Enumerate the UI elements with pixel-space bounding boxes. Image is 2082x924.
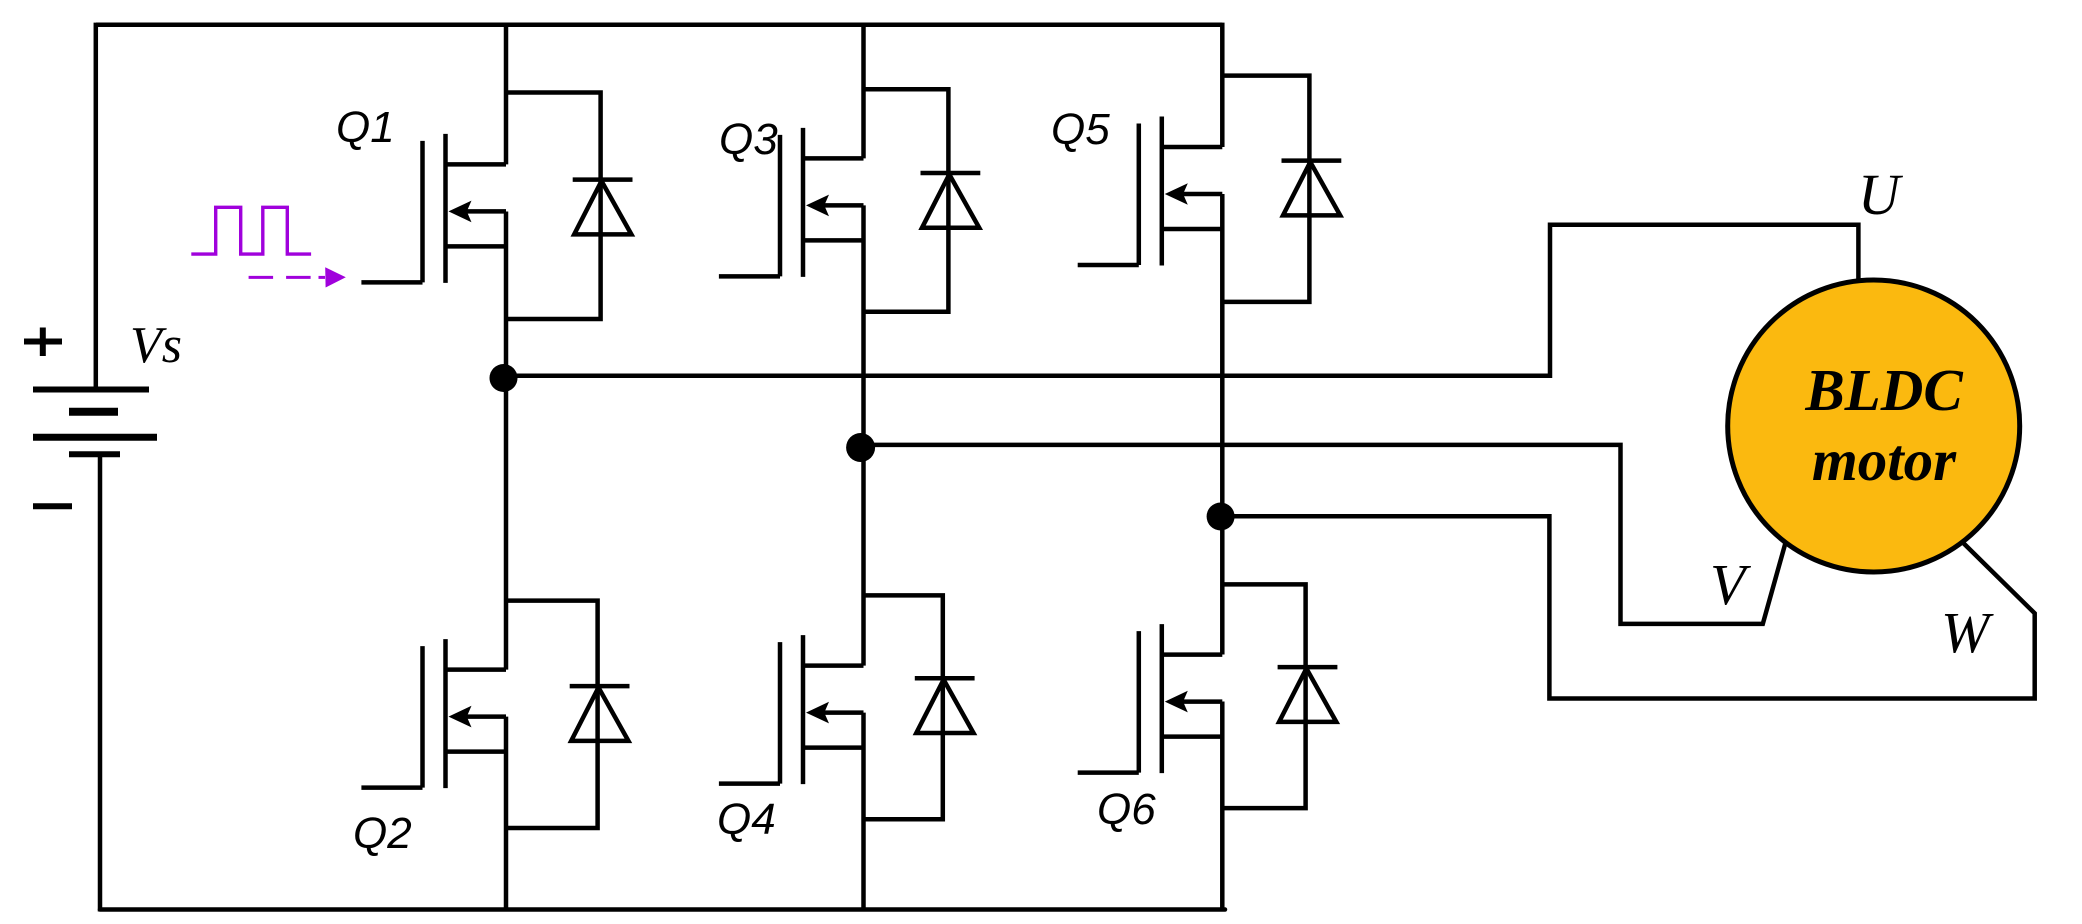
- wire phase W to motor: [1221, 516, 2035, 698]
- PWM dashed arrow into Q1 gate: [249, 267, 346, 287]
- wire Q6 diode frame: [1222, 584, 1305, 808]
- wire leg 2 vertical segments: [861, 23, 866, 910]
- wire phase V to motor: [861, 445, 1786, 624]
- node U junction dot: [490, 364, 518, 392]
- transistor Q3: [719, 128, 864, 277]
- wire Q3 diode frame: [864, 89, 949, 312]
- svg-text:motor: motor: [1812, 427, 1957, 493]
- svg-text:Q5: Q5: [1051, 105, 1110, 154]
- node V junction dot: [846, 433, 875, 462]
- battery Vs: [33, 390, 157, 455]
- wire leg 3 vertical segments: [1220, 23, 1225, 910]
- diode D1: [573, 180, 633, 235]
- wire Q5 diode frame: [1222, 76, 1309, 302]
- svg-text:BLDC: BLDC: [1804, 357, 1963, 423]
- svg-text:Vs: Vs: [130, 317, 182, 374]
- transistor Q4: [719, 635, 864, 784]
- diode D4: [915, 678, 975, 733]
- svg-text:W: W: [1941, 600, 1994, 665]
- diode D5: [1282, 161, 1342, 216]
- svg-text:Q4: Q4: [717, 795, 776, 844]
- BLDC motor: [1728, 280, 2020, 572]
- svg-text:Q2: Q2: [353, 809, 412, 858]
- wire battery negative lead: [98, 454, 103, 911]
- transistor Q2: [361, 639, 506, 788]
- battery minus polarity mark: [33, 503, 72, 509]
- svg-text:U: U: [1858, 162, 1904, 227]
- wire Q4 diode frame: [864, 595, 943, 819]
- wire Q2 diode frame: [506, 601, 598, 828]
- svg-text:Q3: Q3: [719, 115, 778, 164]
- wire leg 1 vertical segments: [504, 23, 509, 910]
- diode D2: [570, 686, 630, 741]
- wire bottom return rail: [100, 907, 1225, 912]
- node W junction dot: [1207, 503, 1235, 531]
- transistor Q6: [1078, 624, 1223, 773]
- wire battery positive lead: [94, 23, 99, 390]
- wire phase U to motor: [504, 225, 1859, 376]
- svg-text:Q6: Q6: [1097, 785, 1156, 834]
- battery plus polarity mark: [24, 328, 62, 357]
- diode D3: [921, 173, 981, 228]
- diode D6: [1278, 667, 1338, 722]
- wire top supply rail: [96, 23, 1222, 28]
- transistor Q1: [361, 134, 506, 283]
- PWM gate signal waveform: [191, 207, 311, 254]
- transistor Q5: [1078, 117, 1223, 266]
- svg-text:Q1: Q1: [336, 103, 395, 152]
- wire Q1 diode frame: [506, 93, 601, 320]
